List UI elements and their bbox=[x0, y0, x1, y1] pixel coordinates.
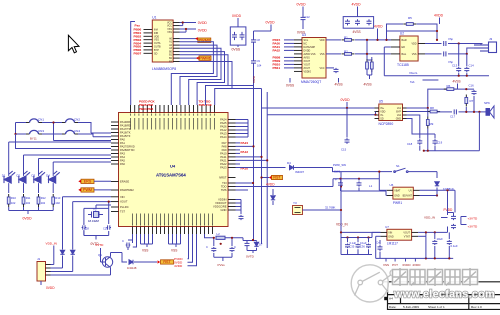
U2 left pins bbox=[391, 40, 400, 54]
wire bbox=[437, 111, 452, 113]
svg-text:PA9/PWM2: PA9/PWM2 bbox=[120, 188, 134, 192]
svg-text:VOUT: VOUT bbox=[403, 231, 410, 234]
svg-text:A4: A4 bbox=[389, 297, 393, 301]
U7 internal pin names bbox=[388, 231, 410, 238]
bus wire bbox=[261, 108, 263, 157]
resistor R6 bbox=[444, 88, 457, 91]
svg-text:0.1uF: 0.1uF bbox=[451, 244, 458, 248]
svg-text:VBAT: VBAT bbox=[394, 189, 401, 192]
wire bbox=[246, 241, 248, 242]
wire bbox=[242, 238, 244, 241]
wire bbox=[100, 248, 102, 262]
svg-text:PA02: PA02 bbox=[273, 49, 281, 53]
svg-text:S1: S1 bbox=[396, 164, 400, 168]
svg-text:0VDD: 0VDD bbox=[341, 98, 351, 102]
wire bbox=[378, 172, 380, 191]
wire bbox=[132, 240, 134, 243]
svg-text:PA14: PA14 bbox=[220, 135, 227, 139]
capacitor C20 bbox=[239, 215, 244, 220]
regulator U6 bbox=[393, 187, 413, 199]
ferrite bead CN1 bbox=[26, 119, 42, 123]
svg-text:SD: SD bbox=[380, 118, 384, 121]
svg-text:0VTD: 0VTD bbox=[246, 255, 255, 259]
wire bbox=[23, 174, 25, 177]
wire bbox=[377, 29, 379, 40]
svg-text:R9: R9 bbox=[430, 122, 434, 126]
svg-text:C+: C+ bbox=[376, 241, 380, 245]
svg-text:PA5: PA5 bbox=[120, 159, 125, 163]
junction bbox=[108, 201, 110, 203]
svg-text:R11: R11 bbox=[26, 196, 31, 200]
wire bbox=[383, 47, 385, 76]
wire bbox=[453, 213, 455, 216]
svg-text:U6: U6 bbox=[390, 183, 394, 187]
svg-text:Sheet 1 of 1: Sheet 1 of 1 bbox=[428, 305, 445, 309]
wire bbox=[461, 216, 467, 218]
svg-text:CN1: CN1 bbox=[38, 118, 44, 122]
wire bbox=[225, 237, 243, 239]
stub bbox=[394, 258, 396, 261]
wire bbox=[478, 112, 480, 151]
bypass capacitor group C1/C2 bbox=[230, 27, 246, 45]
wire bbox=[358, 179, 360, 181]
J1 pins bbox=[46, 265, 51, 276]
wire bbox=[379, 240, 381, 244]
wire bbox=[448, 232, 450, 239]
regulator U2 bbox=[400, 36, 418, 61]
wire bbox=[53, 246, 55, 265]
resistor bbox=[426, 117, 429, 129]
svg-text:C36: C36 bbox=[360, 245, 365, 249]
svg-text:VDDOUT: VDDOUT bbox=[215, 201, 227, 205]
svg-text:4VDD: 4VDD bbox=[434, 14, 444, 18]
svg-text:R10: R10 bbox=[11, 196, 16, 200]
wire bbox=[367, 74, 372, 76]
junction bbox=[346, 236, 348, 238]
wire bbox=[425, 236, 427, 258]
svg-text:LM1117: LM1117 bbox=[387, 241, 398, 245]
capacitor C4 bbox=[301, 14, 306, 22]
svg-text:PA1: PA1 bbox=[120, 141, 125, 145]
net label arrow bbox=[78, 180, 81, 183]
crystal Y3 bbox=[293, 206, 303, 215]
svg-text:www.elecfans.com: www.elecfans.com bbox=[393, 289, 495, 301]
junction bbox=[185, 28, 187, 30]
svg-text:PA0: PA0 bbox=[120, 138, 125, 142]
U6 internal pin names bbox=[394, 189, 412, 197]
wire bbox=[83, 230, 85, 236]
svg-text:VDDCORE: VDDCORE bbox=[213, 205, 227, 209]
svg-text:102: 102 bbox=[11, 201, 16, 205]
resistor R8 bbox=[427, 110, 440, 113]
wire bbox=[261, 89, 263, 109]
wire bbox=[52, 174, 54, 177]
wire bbox=[231, 238, 233, 246]
capacitor bbox=[245, 242, 250, 248]
wire bbox=[447, 190, 449, 212]
wire bbox=[62, 247, 64, 250]
svg-text:C: C bbox=[206, 245, 208, 249]
wire bbox=[188, 234, 189, 259]
capacitor C10 bbox=[443, 41, 446, 46]
wire bbox=[371, 232, 373, 237]
svg-text:D4: D4 bbox=[287, 161, 291, 165]
bus wire bbox=[236, 146, 254, 240]
svg-text:0VSS: 0VSS bbox=[286, 84, 294, 88]
junction bbox=[385, 39, 387, 41]
svg-text:L2: L2 bbox=[217, 232, 221, 236]
wire bbox=[93, 136, 111, 138]
svg-text:0VSS: 0VSS bbox=[252, 76, 256, 83]
svg-text:VDD: VDD bbox=[319, 39, 324, 42]
svg-text:PA12: PA12 bbox=[220, 128, 227, 132]
wire bbox=[94, 189, 111, 191]
svg-text:PA23: PA23 bbox=[220, 166, 227, 170]
wire bbox=[262, 177, 270, 179]
wire U1 to U4 bbox=[171, 42, 213, 105]
wire bbox=[340, 179, 342, 181]
capacitor C32 bbox=[230, 247, 235, 252]
wire bbox=[94, 180, 111, 182]
wire U1 to U4 bbox=[180, 55, 229, 105]
svg-text:C9: C9 bbox=[257, 59, 261, 63]
resistor bbox=[370, 59, 373, 72]
wire bbox=[371, 69, 373, 75]
wire U1 to U4 bbox=[180, 48, 222, 105]
junction bbox=[260, 156, 262, 158]
svg-text:VSS: VSS bbox=[171, 249, 177, 253]
wire bbox=[448, 43, 481, 45]
wire bbox=[427, 108, 429, 117]
junction bbox=[466, 53, 468, 55]
wire bbox=[372, 231, 380, 233]
svg-text:Date:: Date: bbox=[389, 305, 397, 309]
svg-text:ERS: ERS bbox=[84, 180, 92, 184]
resistor R5 bbox=[403, 23, 416, 26]
junction bbox=[436, 194, 438, 196]
wire bbox=[134, 261, 157, 263]
connector J2 bbox=[474, 42, 497, 53]
wire bbox=[289, 78, 291, 83]
ground rail wire bbox=[384, 75, 489, 77]
wire bbox=[448, 53, 467, 55]
wire bbox=[40, 281, 42, 285]
junction bbox=[458, 75, 460, 77]
wire bbox=[333, 168, 393, 172]
bus wire bbox=[266, 115, 268, 161]
junction bbox=[340, 231, 342, 233]
wire bbox=[340, 188, 342, 192]
wire U1 area to U4 pin bbox=[131, 22, 135, 106]
svg-text:PA28/DTXD: PA28/DTXD bbox=[120, 148, 134, 152]
wire bbox=[407, 111, 431, 113]
wire bbox=[91, 132, 111, 134]
watermark logo links bbox=[355, 270, 397, 296]
wire bbox=[127, 247, 129, 250]
title block frame bbox=[379, 282, 500, 310]
net label RST bbox=[161, 260, 174, 264]
IC U3 bbox=[302, 38, 326, 79]
svg-text:U2: U2 bbox=[400, 32, 404, 36]
capacitor C2 bbox=[240, 32, 245, 40]
junction bbox=[213, 237, 215, 239]
wire bbox=[122, 253, 127, 263]
wire bbox=[427, 129, 429, 151]
junction bbox=[478, 111, 480, 113]
svg-text:0VTD: 0VTD bbox=[96, 243, 105, 247]
wire bbox=[367, 59, 372, 61]
wire bbox=[42, 133, 62, 135]
wire to LED4 bbox=[52, 162, 54, 175]
wire bbox=[454, 88, 474, 90]
svg-text:4VDD: 4VDD bbox=[412, 263, 421, 267]
wire bbox=[270, 25, 272, 32]
wire bbox=[236, 149, 241, 151]
U4 left pin names bbox=[120, 120, 135, 214]
wire bbox=[302, 7, 304, 15]
junction bbox=[436, 39, 438, 41]
wire bbox=[254, 30, 272, 32]
wire bbox=[188, 234, 193, 262]
svg-text:PA8: PA8 bbox=[222, 145, 227, 149]
wire bbox=[228, 85, 254, 87]
svg-text:PWR1: PWR1 bbox=[393, 201, 402, 205]
wire bbox=[340, 219, 342, 238]
wire bbox=[461, 224, 467, 226]
wire bbox=[434, 146, 436, 151]
capacitor C31 bbox=[211, 247, 216, 252]
wire bbox=[53, 123, 55, 141]
wire bbox=[8, 174, 10, 177]
junction bbox=[466, 75, 468, 77]
svg-text:PVT: PVT bbox=[392, 263, 398, 267]
svg-text:4VSS: 4VSS bbox=[353, 30, 361, 34]
wire bbox=[465, 107, 467, 112]
svg-text:CN2: CN2 bbox=[74, 118, 80, 122]
junction bbox=[260, 176, 262, 178]
wire bbox=[366, 69, 368, 75]
U4 right pins bbox=[228, 120, 236, 211]
capacitor C27 bbox=[447, 240, 452, 245]
svg-text:J3: J3 bbox=[489, 37, 493, 41]
U4 top pins bbox=[131, 105, 215, 113]
wire bbox=[420, 195, 438, 197]
junction bbox=[374, 114, 376, 116]
svg-text:10uF: 10uF bbox=[437, 237, 444, 241]
rail wire bbox=[333, 178, 379, 180]
wire bbox=[231, 253, 233, 257]
wire to LED2 bbox=[23, 155, 25, 175]
crystal Y2 bbox=[88, 212, 103, 218]
net label PWM bbox=[81, 188, 94, 192]
wire bbox=[346, 108, 348, 138]
svg-text:4VSS: 4VSS bbox=[364, 83, 372, 87]
svg-text:102: 102 bbox=[26, 201, 31, 205]
wire bbox=[236, 186, 253, 188]
svg-text:PA24: PA24 bbox=[241, 141, 249, 145]
wire bbox=[62, 256, 64, 269]
wire bbox=[253, 186, 334, 188]
resistor bbox=[52, 194, 55, 207]
svg-text:Y2: Y2 bbox=[93, 208, 97, 212]
svg-text:C14: C14 bbox=[469, 64, 475, 68]
wire bbox=[256, 248, 258, 251]
svg-text:C: C bbox=[234, 245, 236, 249]
U4 lower right pin wires bbox=[236, 200, 242, 211]
wire bbox=[375, 236, 377, 258]
junction bbox=[378, 171, 380, 173]
wire bbox=[347, 238, 349, 243]
capacitor C7 bbox=[367, 19, 372, 25]
svg-text:Tab: Tab bbox=[410, 80, 415, 84]
junction bbox=[367, 236, 369, 238]
svg-text:PVDD: PVDD bbox=[444, 208, 454, 212]
wire bbox=[23, 183, 25, 193]
wire bbox=[236, 163, 241, 165]
U4 right pin names bbox=[213, 118, 227, 213]
wire bbox=[473, 96, 475, 112]
diode D4 bbox=[290, 165, 294, 169]
net label texts right of U4 bbox=[241, 141, 249, 171]
svg-text:R8: R8 bbox=[430, 106, 434, 110]
svg-text:+3VTD: +3VTD bbox=[468, 217, 478, 221]
wire bbox=[424, 150, 480, 152]
junction bbox=[448, 257, 450, 259]
junction bbox=[340, 185, 342, 187]
U4 top pin net labels bbox=[139, 100, 213, 111]
svg-text:0VDD: 0VDD bbox=[232, 14, 242, 18]
net label PWM0 bbox=[198, 38, 211, 43]
svg-text:VDD_IN: VDD_IN bbox=[46, 242, 57, 246]
svg-text:C29: C29 bbox=[103, 227, 108, 231]
wire bbox=[340, 172, 342, 219]
ferrite bead CN2 bbox=[62, 119, 78, 123]
U6 pins bbox=[387, 190, 420, 195]
wire bbox=[458, 44, 460, 67]
svg-text:BY11: BY11 bbox=[30, 136, 37, 140]
wire bbox=[213, 253, 215, 257]
resistor bbox=[465, 95, 468, 107]
svg-text:PA9: PA9 bbox=[222, 148, 227, 152]
capacitor C17 bbox=[454, 109, 457, 114]
inductor L2 bbox=[216, 236, 225, 239]
capacitor C13 bbox=[456, 67, 461, 73]
U4 top pin names bbox=[130, 114, 215, 130]
ground rail wire bbox=[84, 235, 109, 237]
svg-text:VDD_IN: VDD_IN bbox=[424, 216, 435, 220]
wire to LED3 bbox=[38, 159, 40, 176]
wire bbox=[294, 167, 333, 169]
bus wire bbox=[54, 140, 112, 142]
svg-text:PA27/DRXD: PA27/DRXD bbox=[120, 145, 135, 149]
wire bbox=[78, 123, 91, 134]
wire bbox=[338, 78, 340, 83]
wire bbox=[38, 183, 40, 193]
wire bbox=[385, 195, 388, 197]
wire bbox=[447, 227, 449, 233]
capacitor C5 bbox=[345, 19, 350, 25]
svg-text:PWM: PWM bbox=[83, 188, 92, 192]
svg-text:SW1: SW1 bbox=[334, 170, 341, 174]
svg-text:ER: ER bbox=[402, 46, 406, 49]
svg-text:C8: C8 bbox=[257, 38, 261, 42]
wire bbox=[72, 247, 74, 250]
svg-text:0VSS: 0VSS bbox=[297, 31, 305, 35]
wire bbox=[42, 122, 62, 124]
svg-text:VbuzL: VbuzL bbox=[409, 71, 418, 75]
wire bbox=[447, 212, 449, 215]
wire bbox=[418, 231, 447, 233]
U5 left pins bbox=[375, 108, 379, 119]
svg-text:VSS: VSS bbox=[320, 53, 325, 56]
U5 internal pin names bbox=[380, 107, 401, 121]
wire bbox=[8, 183, 10, 193]
junction bbox=[436, 30, 438, 32]
wire bbox=[133, 234, 137, 247]
diode bbox=[71, 250, 75, 254]
wire bbox=[8, 207, 10, 211]
wire bbox=[425, 43, 442, 45]
wire bbox=[341, 231, 380, 233]
svg-text:PWR_SW: PWR_SW bbox=[333, 163, 346, 167]
wire bbox=[16, 122, 27, 124]
svg-text:R12: R12 bbox=[41, 196, 46, 200]
wire bbox=[253, 45, 255, 59]
capacitor C30 bbox=[126, 243, 131, 248]
svg-text:PA10: PA10 bbox=[220, 152, 227, 156]
junction bbox=[339, 178, 341, 180]
wire bbox=[434, 134, 436, 139]
svg-text:C35: C35 bbox=[350, 245, 355, 249]
signal wire to U5 bbox=[267, 114, 374, 116]
wire bbox=[232, 88, 262, 90]
regulator U7 bbox=[387, 229, 412, 240]
junction bbox=[366, 39, 368, 41]
svg-text:0VDD: 0VDD bbox=[297, 3, 307, 7]
wire bbox=[237, 18, 239, 27]
wire bbox=[266, 92, 268, 115]
wire bbox=[379, 189, 386, 191]
junction bbox=[376, 39, 378, 41]
net label arrow bbox=[269, 176, 272, 179]
capacitor C26 bbox=[432, 240, 437, 245]
wire bbox=[240, 210, 242, 214]
resistor bbox=[22, 194, 25, 207]
svg-text:PA6: PA6 bbox=[120, 162, 125, 166]
wire bbox=[371, 57, 373, 60]
wire bbox=[376, 235, 381, 237]
junction bbox=[266, 159, 268, 161]
wire bbox=[420, 189, 456, 191]
wire bbox=[243, 240, 257, 242]
wire bbox=[185, 29, 187, 32]
svg-text:0VDD: 0VDD bbox=[198, 21, 208, 25]
wire bbox=[83, 208, 85, 224]
wire bbox=[78, 134, 93, 137]
junction bbox=[231, 237, 233, 239]
wire bbox=[302, 23, 304, 30]
junction bbox=[52, 121, 54, 123]
junction bbox=[340, 209, 342, 211]
junction bbox=[252, 182, 254, 184]
svg-text:PLLRC: PLLRC bbox=[120, 205, 129, 209]
wire bbox=[408, 171, 437, 173]
svg-text:IN4007: IN4007 bbox=[295, 170, 304, 174]
wire bbox=[252, 251, 254, 254]
bus wire bbox=[16, 134, 112, 149]
capacitor C6 bbox=[355, 19, 360, 25]
svg-text:CN3: CN3 bbox=[38, 129, 44, 133]
